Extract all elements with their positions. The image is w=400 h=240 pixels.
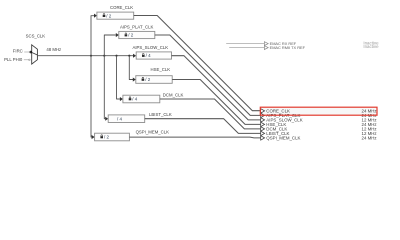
mux SCS_CLK [31,45,38,64]
wire branch down to LBIST divider [103,56,106,119]
wire branch down to HSE divider [129,56,133,80]
svg-text:DCM_CLK: DCM_CLK [163,93,184,98]
svg-text:FIRC: FIRC [13,48,23,53]
pin arrow row 1 [261,109,265,113]
svg-text:QSPI_MEM_CLK: QSPI_MEM_CLK [266,136,300,141]
svg-text:/ 2: / 2 [106,13,112,18]
wire stub PLL PHI0 to mux [24,59,30,61]
wire DCM_CLK output to row 5 [160,99,261,129]
pin arrow row 4 [261,122,265,126]
wire CORE_CLK output to row 1 [134,16,261,111]
svg-text:CORE_CLK: CORE_CLK [110,5,133,10]
junction at x=104.3 [103,55,105,57]
pin arrow EMAC RX REF [264,42,268,46]
svg-text:/ 4: / 4 [146,53,152,58]
pin arrow row 3 [261,118,265,122]
pin arrow row 2 [261,113,265,117]
mux selected input dot (FIRC) [29,51,32,54]
mux input 2 circle (PLL PHI0) [29,59,31,61]
pin arrow EMAC RMII TX REF [264,46,268,50]
highlight fill row CORE_CLK [260,107,377,115]
svg-text:SCS_CLK: SCS_CLK [26,33,46,38]
svg-text:/ 2: / 2 [104,135,110,140]
svg-text:AIPS_PLAT_CLK: AIPS_PLAT_CLK [120,24,153,29]
wire EMAC RMII TX REF (inactive) [229,47,264,49]
svg-text:Inactive: Inactive [363,44,379,49]
svg-text:/ 2: / 2 [145,77,151,82]
svg-text:QSPI_MEM_CLK: QSPI_MEM_CLK [136,130,170,135]
wire AIPS_PLAT_CLK output to row 2 [155,35,261,115]
svg-text:/ 4: / 4 [132,97,138,102]
wire branch up to CORE divider [91,16,94,56]
junction at x=116.5 [115,55,117,57]
svg-text:HSE_CLK: HSE_CLK [151,67,171,72]
divider QSPI_MEM_CLK box /2 [92,133,130,141]
divider AIPS_PLAT_CLK box /2 [116,31,155,38]
wire branch up to AIPS_PLAT divider [104,35,116,56]
wire HSE_CLK output to row 4 [172,80,260,125]
junction at x=91 [90,55,92,57]
wire main SCS_CLK bus (mux output to AIPS_SLOW divider) [37,55,133,57]
wire stub FIRC to mux [24,51,31,53]
svg-text:/ 2: / 2 [128,33,134,38]
svg-text:/ 4: / 4 [117,116,123,121]
wire QSPI_MEM_CLK output to row 7 [129,136,260,139]
highlight red border row CORE_CLK [260,107,377,115]
divider LBIST_CLK box /4 (no lock) [105,115,145,123]
divider HSE_CLK box /2 [133,76,172,84]
svg-text:AIPS_SLOW_CLK: AIPS_SLOW_CLK [133,45,169,50]
svg-text:EMAC RMII TX REF: EMAC RMII TX REF [270,45,306,50]
wire branch down to QSPI divider [90,56,93,137]
pin arrow row 5 [261,127,265,131]
svg-text:PLL PHI0: PLL PHI0 [4,57,23,62]
wire branch down to DCM divider [117,56,121,99]
divider CORE_CLK box /2 [94,12,134,19]
wire EMAC RX REF (inactive) [226,43,264,45]
pin arrow row 7 [261,136,265,140]
wire LBIST_CLK output to row 6 [145,119,261,134]
wire AIPS_SLOW_CLK output to row 3 [172,56,261,120]
svg-text:48 MHz: 48 MHz [46,47,61,52]
svg-text:24 MHz: 24 MHz [362,136,377,141]
pin arrow row 6 [261,131,265,135]
svg-text:LBIST_CLK: LBIST_CLK [149,112,172,117]
junction at x=129.3 [128,55,130,57]
divider DCM_CLK box /4 [120,95,160,103]
divider AIPS_SLOW_CLK box /4 [133,52,172,59]
